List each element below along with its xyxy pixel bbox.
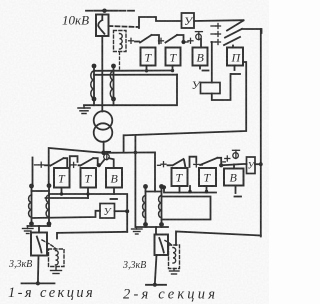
CT 1 top [91, 64, 97, 102]
node Sb dot [181, 40, 185, 44]
wire top CT2 line [94, 74, 177, 76]
ground coil sec1 [51, 267, 62, 274]
wire B2 stub minus [235, 186, 242, 197]
wire sec2 end bus [146, 284, 166, 286]
wire CT stubs to bus [93, 99, 95, 105]
wire feeder primary [101, 36, 103, 112]
wire collector sec1 [49, 194, 127, 232]
node sec2 end [153, 283, 157, 287]
wire return pair sec1 [46, 197, 89, 199]
CT 2 top [110, 64, 116, 102]
switch Sb top row [159, 35, 184, 43]
trip coil dashed box sec2 [169, 245, 180, 269]
wire P return right [124, 62, 247, 152]
relay T1 sec2 [172, 168, 188, 186]
coil arcs top [120, 34, 123, 50]
switch S1a sec1 [35, 158, 68, 167]
wire CT bottom bus sec2 [135, 226, 168, 228]
node S2b dot [219, 163, 223, 167]
wire trip sec1 [57, 232, 127, 239]
trip coil dashed box sec1 [49, 249, 65, 267]
relay B sec1 [106, 168, 122, 188]
wire bridge sec2 [190, 157, 197, 167]
node sec1 end [36, 281, 40, 285]
wire U1 out [115, 210, 128, 212]
wire B stub minus [200, 66, 209, 71]
wire CT jumper sec1 [32, 190, 50, 192]
ground sec2 [132, 227, 143, 234]
lamp symbol sec1 [103, 152, 110, 160]
wire ground bus [84, 75, 177, 106]
wire sec1 plus bus [32, 158, 34, 187]
wire Q2 down [155, 255, 157, 285]
wire linkage to U [139, 17, 182, 28]
wire S3 to P [232, 46, 234, 48]
wire P stub minus [231, 66, 240, 75]
wire CT bottom bus sec1 [28, 225, 51, 227]
lamp symbol top [195, 32, 202, 40]
wire CT jumper sec2 [146, 191, 162, 193]
wire collector sec2 rectangle [162, 197, 211, 220]
relay T2 sec1 [81, 168, 97, 188]
relay U aux rect [201, 83, 221, 94]
switch S3 cascade [224, 37, 240, 45]
wire linkage dashed [109, 26, 139, 27]
wire T2 stub [172, 66, 174, 71]
CT b sec2 [159, 184, 164, 227]
relay B box [193, 48, 208, 66]
relay T2 sec2 [199, 168, 216, 186]
node secondary [101, 151, 106, 156]
relay U1 box [100, 204, 115, 219]
wire Q1 to coil dashed [42, 240, 56, 249]
switch S2b sec2 [194, 158, 221, 167]
lamp symbol sec2 [233, 150, 240, 158]
node S1b dot [97, 163, 101, 167]
wire top CT1 line [94, 70, 173, 72]
wire Q1 down [37, 256, 40, 284]
CT a sec1 [29, 184, 34, 227]
node plus sec2 [223, 156, 230, 162]
relay B sec2 [224, 169, 244, 186]
node plus2 [211, 32, 221, 37]
wire box stubs sec2 [179, 186, 181, 193]
trip coil dashed box top [114, 31, 127, 52]
switch S1b sec1 [71, 158, 98, 167]
switch S2a sec2 [158, 159, 186, 168]
wire to B1 top [101, 160, 105, 165]
relay U2 box [247, 157, 256, 174]
ground coil sec2 [170, 269, 180, 275]
switch S1 cascade [227, 21, 244, 31]
minus below B sec1 [111, 198, 118, 200]
node plus3 [211, 40, 221, 45]
relay U1 box top [182, 13, 195, 28]
ground sec1 [23, 226, 34, 234]
wire S2 to right edge [242, 29, 262, 33]
transformer main [94, 111, 113, 130]
CT b sec1 [46, 183, 51, 226]
node bus junction [102, 9, 106, 13]
relay P box [227, 48, 243, 66]
wire secondary right [104, 152, 155, 191]
bus 10kV top [86, 10, 134, 12]
wire P return to ground2 branch [134, 135, 136, 227]
breaker Q1 box [96, 15, 109, 37]
wire box stubs sec1 [61, 188, 63, 195]
wire secondary left [49, 148, 104, 186]
relay T2 box [166, 48, 181, 66]
wire CT to U1 [32, 211, 101, 218]
switch S2 cascade [225, 29, 242, 38]
ground main [78, 105, 90, 113]
relay T1 box [141, 48, 156, 66]
wire B supply vertical [211, 42, 213, 83]
wire transformer to node [103, 142, 105, 153]
CT a sec2 [143, 184, 148, 227]
breaker Q sec2 [155, 235, 169, 256]
node plus1 [211, 24, 221, 29]
breaker Q1 blade [98, 15, 104, 34]
wire to B2 top and U2 [221, 164, 246, 165]
wire U to cascade [194, 19, 244, 22]
wire U rect to P [212, 74, 231, 100]
breaker Q sec1 [31, 233, 47, 256]
wire trip sec2 [176, 232, 261, 246]
relay T1 sec1 [54, 168, 70, 188]
node U2 right dot [259, 162, 263, 166]
wire sec1 end bus [22, 282, 55, 284]
wire Q2 to coil dashed [165, 241, 173, 247]
wire right edge vertical [260, 29, 262, 237]
wire T1 stub [146, 66, 148, 71]
wire to B top [200, 39, 202, 48]
switch Sa top row [129, 35, 160, 44]
paper texture [0, 0, 1, 1]
wire bridge1 sec1 [70, 156, 78, 166]
node plus B [186, 38, 194, 43]
